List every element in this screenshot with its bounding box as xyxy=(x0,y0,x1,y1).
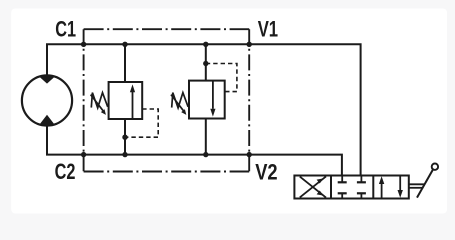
RV1 body xyxy=(109,82,143,119)
svg-text:V1: V1 xyxy=(258,17,278,42)
RV2 spring adjust arrow xyxy=(171,95,184,112)
DV1 divider 1 xyxy=(330,176,332,199)
junction dot RV2 pilot xyxy=(203,61,208,66)
junction dot RV1 pilot xyxy=(122,135,127,140)
dashed enclosure box bottom edge xyxy=(84,171,250,173)
dashed enclosure box left edge xyxy=(83,29,85,171)
RV2 body xyxy=(189,81,225,119)
motor bottom triangle xyxy=(40,115,55,126)
directional valve DV1 body xyxy=(294,176,408,199)
DV1 left position: crossed arrows xyxy=(300,176,326,197)
relief valve RV2 (right) xyxy=(171,44,237,154)
RV1 spring adjust arrow xyxy=(91,95,104,112)
motor M1 xyxy=(22,75,72,125)
wire: rail to RV2 top xyxy=(205,44,207,80)
RV1 spring xyxy=(91,93,107,108)
motor top triangle xyxy=(39,75,55,83)
DV1 divider 2 xyxy=(372,176,374,199)
RV2 internal arrow (down) xyxy=(212,81,214,109)
DV1 right position: straight arrows xyxy=(379,176,403,199)
wire: top rail C1-V1 to valve xyxy=(47,44,361,175)
svg-text:C1: C1 xyxy=(55,17,76,42)
RV2 spring xyxy=(172,93,188,108)
RV2 pilot line (dashed) xyxy=(206,64,237,92)
DV1 centre position: blocked ports xyxy=(338,176,366,199)
DV1 lever xyxy=(409,164,438,198)
junction dots top rail xyxy=(81,42,86,47)
RV1 pilot line (dashed) xyxy=(125,109,158,137)
wire: bottom rail C2-V2 to valve xyxy=(47,126,342,176)
dashed enclosure box top edge xyxy=(84,28,250,30)
RV1 internal arrow (up) xyxy=(132,91,134,119)
wire: RV2 bottom to rail xyxy=(205,119,207,155)
junction dots bottom rail xyxy=(81,152,86,157)
port labels xyxy=(55,17,279,185)
svg-text:V2: V2 xyxy=(255,160,277,185)
wire: rail to RV1 top xyxy=(124,44,126,82)
dashed enclosure box right edge xyxy=(248,29,250,171)
wire: RV1 bottom to rail xyxy=(124,119,126,155)
relief valve RV1 (left) xyxy=(91,44,159,154)
svg-text:C2: C2 xyxy=(55,159,76,184)
